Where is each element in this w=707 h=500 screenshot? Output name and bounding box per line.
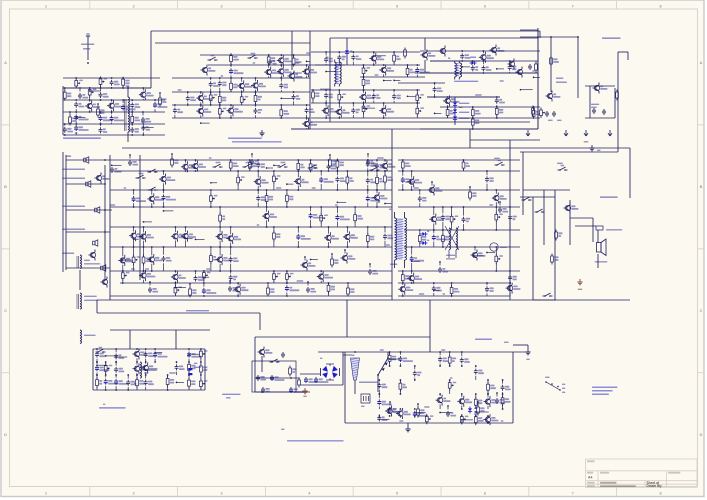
- svg-text:A: A: [4, 61, 7, 65]
- svg-text:C: C: [700, 309, 703, 313]
- svg-text:1: 1: [45, 4, 47, 8]
- svg-text:3: 3: [220, 491, 222, 495]
- svg-text:B: B: [4, 185, 7, 189]
- svg-text:2: 2: [133, 491, 135, 495]
- svg-text:5: 5: [396, 4, 398, 8]
- svg-text:D: D: [700, 433, 703, 437]
- svg-text:2: 2: [133, 4, 135, 8]
- svg-text:7: 7: [572, 4, 574, 8]
- svg-text:8: 8: [659, 491, 661, 495]
- svg-text:A4: A4: [588, 476, 592, 480]
- svg-text:Drawn By:: Drawn By:: [647, 484, 663, 488]
- svg-text:C: C: [4, 309, 7, 313]
- svg-text:6: 6: [484, 4, 486, 8]
- svg-text:7: 7: [572, 491, 574, 495]
- svg-text:B: B: [700, 185, 703, 189]
- svg-text:D: D: [4, 433, 7, 437]
- svg-text:5: 5: [396, 491, 398, 495]
- svg-text:1: 1: [45, 491, 47, 495]
- svg-text:8: 8: [659, 4, 661, 8]
- svg-text:A: A: [700, 61, 703, 65]
- svg-text:6: 6: [484, 491, 486, 495]
- svg-text:3: 3: [220, 4, 222, 8]
